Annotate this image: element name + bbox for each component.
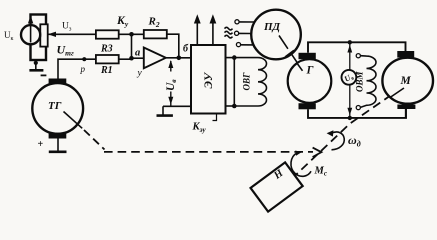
dashed shaft TG to corner	[84, 130, 105, 150]
svg-text:М: М	[400, 75, 412, 87]
ground bar	[157, 114, 173, 117]
shaft dash inside G	[297, 63, 303, 71]
wire R2 right down to node v	[167, 34, 179, 57]
source arrow	[30, 20, 32, 43]
M top brush	[397, 51, 414, 58]
wire amplifier output to EU	[166, 57, 191, 59]
svg-text:R1: R1	[100, 65, 113, 76]
bus vertical between outputs	[233, 58, 235, 106]
load H box	[251, 162, 303, 211]
label OVG rotated	[242, 72, 252, 91]
wire source bottom to ground	[35, 60, 37, 70]
armature loop top rail	[308, 42, 406, 53]
armature voltage line Uya	[349, 42, 351, 118]
node Ky junction	[129, 32, 134, 37]
svg-text:р: р	[80, 64, 86, 74]
minus sign near TG top	[41, 74, 47, 76]
Uya circle	[342, 70, 357, 85]
TG bottom brush	[49, 133, 67, 139]
svg-text:у: у	[137, 69, 143, 79]
svg-text:ОВМ: ОВМ	[355, 70, 365, 92]
motor field OVM terminal top	[356, 54, 360, 58]
resistor R3	[96, 30, 119, 38]
PD terminal 2	[235, 31, 239, 35]
omega_d arc arrow	[331, 132, 344, 150]
lower input wire to EU with ground	[163, 105, 191, 107]
svg-text:ЭУ: ЭУ	[203, 71, 215, 88]
label EU rotated	[203, 71, 215, 88]
source U_v circle	[21, 25, 40, 44]
M bottom brush	[397, 105, 415, 110]
wire R1 to node a	[119, 58, 132, 60]
armature loop bottom rail	[308, 109, 406, 118]
down arrowhead	[347, 108, 352, 116]
wire R3 to node Ky	[119, 33, 144, 35]
control voltage arrow Uv	[170, 61, 172, 106]
svg-text:ОВГ: ОВГ	[242, 72, 252, 91]
resistor R1	[96, 55, 119, 63]
ground stub	[162, 106, 164, 115]
wire node Ky down to node a	[131, 34, 133, 58]
field winding OVG coil	[258, 58, 267, 106]
node p	[82, 57, 86, 61]
shaft coupling tick	[285, 50, 294, 57]
svg-text:+: +	[38, 139, 44, 150]
prime mover PD circle	[251, 10, 301, 60]
Keu pointer hook	[213, 114, 217, 121]
motor M circle	[382, 58, 433, 104]
tachogenerator TG circle	[32, 83, 83, 134]
svg-text:ПД: ПД	[263, 21, 281, 33]
op-amp U triangle	[144, 48, 166, 69]
G bottom brush	[299, 103, 316, 109]
potentiometer body	[40, 24, 47, 46]
chevron arrowhead at right end of horizontal shaft	[313, 148, 322, 157]
EU output wire top	[226, 57, 235, 59]
G top brush	[299, 53, 316, 59]
node v	[177, 56, 182, 61]
dashed shaft M to load H	[292, 97, 390, 180]
resistor R2	[144, 30, 167, 38]
ground bar under source	[29, 69, 43, 72]
EU supply arrow 1	[196, 22, 198, 45]
wire Utg vertical from TG	[58, 59, 96, 78]
junction dot top	[232, 55, 237, 60]
up arrowhead	[347, 45, 352, 53]
PD terminal 1	[235, 20, 239, 24]
generator G circle	[288, 59, 332, 103]
node a	[129, 56, 134, 61]
svg-text:а: а	[135, 48, 140, 59]
shaft line inside M	[390, 88, 404, 98]
junction dot below source	[34, 61, 38, 65]
TG shaft line inside	[64, 112, 83, 129]
PD terminal 3	[236, 43, 240, 47]
OVM coil	[360, 56, 376, 108]
shaft PD to G dashes	[279, 36, 304, 73]
source loop frame	[31, 15, 47, 61]
label Uya	[343, 72, 356, 85]
wire node a to amplifier	[132, 57, 144, 59]
wire OVG bottom to bus	[234, 105, 258, 107]
EU supply arrow 2	[212, 22, 214, 45]
TG top brush	[49, 79, 67, 84]
label Uv rotated	[165, 72, 178, 92]
ground bar under TG	[49, 151, 67, 154]
AC squiggles	[225, 27, 233, 30]
Ms arc arrow	[291, 153, 311, 176]
wire Uz from wiper to R3	[49, 33, 96, 35]
EU output wire bottom	[226, 105, 235, 107]
svg-text:Г: Г	[306, 65, 314, 77]
svg-text:R3: R3	[100, 44, 113, 55]
motor field OVM terminal bottom	[356, 106, 360, 110]
junction dot bottom	[232, 104, 237, 109]
wiper arrowhead into potentiometer	[48, 32, 56, 37]
label OVM rotated	[355, 70, 365, 92]
amplifier EU box	[191, 45, 226, 114]
svg-text:ТГ: ТГ	[48, 100, 62, 112]
dashed shaft horizontal	[104, 151, 313, 153]
dot on bottom rail	[348, 116, 352, 120]
dot on top rail	[348, 40, 352, 44]
wire TG bottom to ground	[57, 139, 59, 152]
wire bus to OVG top	[234, 57, 258, 59]
